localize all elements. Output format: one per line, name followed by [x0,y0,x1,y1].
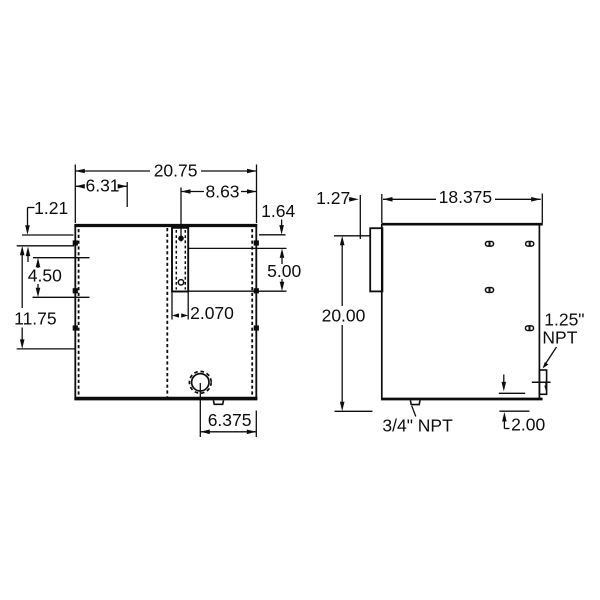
svg-text:NPT: NPT [542,328,577,348]
box right edge [538,225,540,400]
dim 20.75 [74,165,76,224]
dim 8.63 [180,188,182,242]
bracket top hole (filled) [178,236,184,242]
svg-text:6.375: 6.375 [208,410,252,430]
lid top thick line [74,224,257,227]
box left edge [381,224,383,400]
svg-text:6.31: 6.31 [85,176,119,196]
svg-text:2.00: 2.00 [511,414,545,434]
dim 1.64 [281,220,283,227]
bracket bottom hole [178,280,183,285]
dim 6.375 [199,383,201,437]
box bottom thick line [381,398,543,401]
box right edge [255,224,257,400]
svg-text:1.64: 1.64 [261,201,295,221]
bolt left edge row1 [73,240,78,245]
dim 5.00 [188,247,286,249]
svg-text:2.070: 2.070 [190,303,234,323]
dim 20.00 [334,235,371,237]
svg-text:3/4" NPT: 3/4" NPT [382,416,453,436]
svg-text:11.75: 11.75 [14,309,57,329]
svg-text:18.375: 18.375 [439,187,493,207]
box left edge [74,224,76,400]
dim 2.00 [503,375,505,383]
svg-text:5.00: 5.00 [267,261,301,281]
dim 1.27 [349,198,354,200]
bolt left edge row2 [73,288,78,293]
dim 11.75 [17,348,75,350]
dim 2.070 [171,292,173,319]
bracket dashed inner right [184,230,186,290]
box bottom thick line [74,397,257,401]
svg-text:1.27: 1.27 [316,188,350,208]
bolt screws (stadium shapes) [485,241,495,247]
dashed inner line right [251,229,253,397]
bottom notch left view [213,400,223,404]
drain circle inner [192,374,209,391]
svg-text:1.25": 1.25" [544,310,584,330]
bolt right edge row2 [254,288,259,293]
dashed center line [166,228,168,397]
bolt right edge row3 [254,325,259,330]
dim 6.31 [75,185,83,187]
drain circle outer dashed [189,371,211,393]
dashed inner line left [78,229,80,397]
lid thick line [381,223,542,226]
bottom drain notch right view [410,400,420,404]
bracket dashed inner left [175,230,177,290]
flange left [370,228,382,291]
svg-text:20.75: 20.75 [154,161,198,181]
bolt left edge row3 [73,325,78,330]
bracket rectangle [172,228,188,292]
svg-text:8.63: 8.63 [205,181,239,201]
leader 3/4 NPT [412,406,416,417]
1.25 NPT fitting [539,370,546,394]
dim 1.21 leader [28,207,35,209]
dim 4.50 [33,257,90,259]
svg-text:20.00: 20.00 [322,305,366,325]
svg-text:1.21: 1.21 [34,198,68,218]
dim 18.375 [381,194,383,223]
svg-text:4.50: 4.50 [28,265,62,285]
leader to fitting [545,347,557,365]
bolt right edge row1 [254,240,259,245]
